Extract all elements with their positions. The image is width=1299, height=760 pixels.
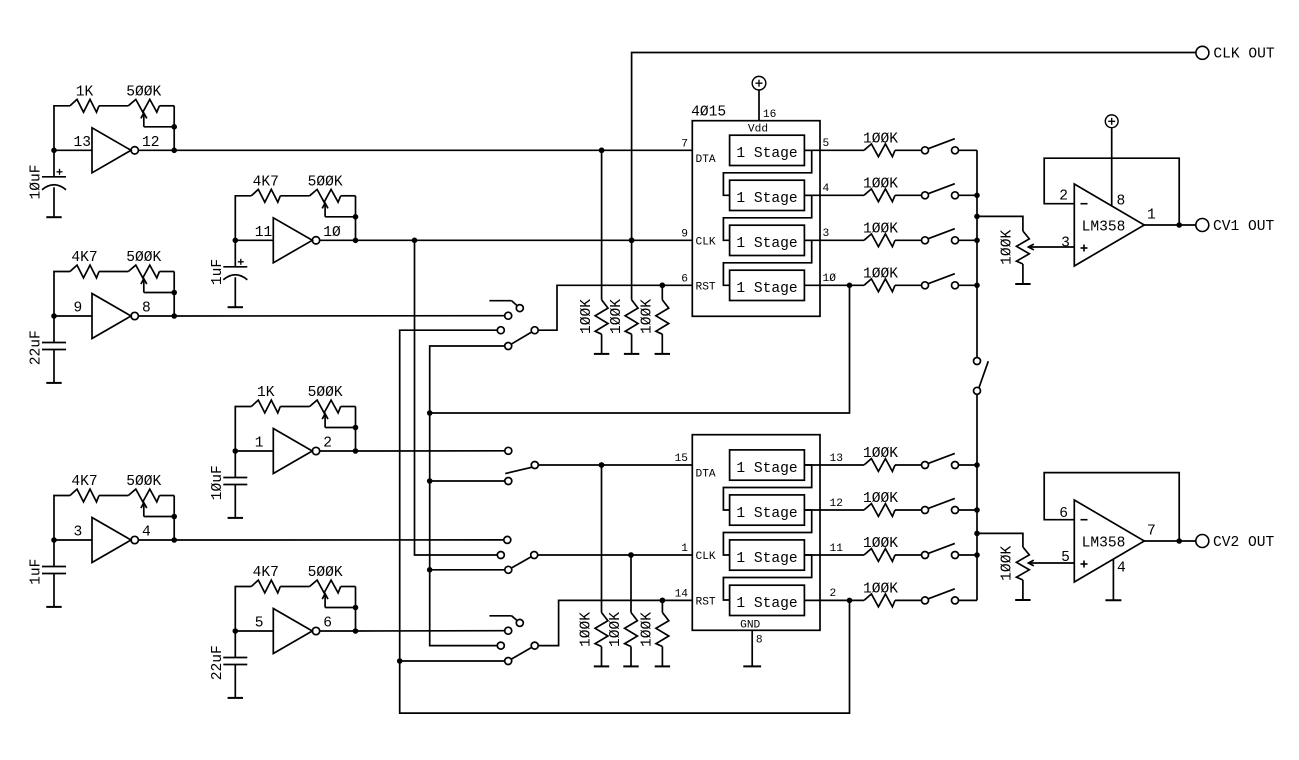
- svg-text:1K: 1K: [76, 84, 94, 100]
- wire CV2 summing bus: [974, 394, 980, 600]
- svg-text:4K7: 4K7: [71, 250, 97, 266]
- terminal CV2 OUT: [1196, 535, 1275, 551]
- svg-text:1ØØK: 1ØØK: [863, 581, 898, 597]
- 4015 B stage 2-3 serpentine wire: [723, 510, 811, 555]
- switch SW4 (stage output 4): [922, 274, 978, 289]
- resistor 100K pulldown DTA bottom: [579, 462, 608, 666]
- U2A pin number 2: [1059, 189, 1068, 205]
- wire CV1 summing bus: [974, 150, 980, 357]
- 4015 B pin label CLK: [696, 551, 716, 563]
- 4015 B pin number 13 and output wire: [804, 453, 864, 465]
- resistor 100K pulldown DTA top: [579, 148, 608, 354]
- ground (pulldown CLK top): [624, 353, 639, 355]
- inverter oscillator IC1B 3-4: feedback wire: [54, 496, 174, 541]
- U2A pin number 3: [1061, 236, 1070, 252]
- U2B pin number 5: [1061, 550, 1070, 566]
- 4015 A stage 3-4 serpentine wire: [723, 240, 811, 285]
- resistor 4K7 (IC1E 11-10 feedback): [251, 174, 280, 202]
- svg-text:1ØuF: 1ØuF: [210, 465, 226, 500]
- 4015 B pin number 14: [675, 589, 689, 601]
- ground (IC1E 11-10 cap): [228, 306, 243, 308]
- svg-text:1: 1: [681, 543, 688, 555]
- resistor 100K pulldown CLK top: [609, 238, 638, 354]
- capacitor 10uF (IC1A 1-2 timing): [210, 451, 247, 518]
- svg-text:8: 8: [756, 635, 763, 647]
- wire net D (4015A stage4 pin 10 feedback): [427, 283, 852, 646]
- 4015 B pin number 1: [681, 543, 688, 555]
- svg-text:16: 16: [763, 109, 776, 121]
- svg-text:1ØØK: 1ØØK: [863, 131, 898, 147]
- terminal CLK OUT: [1196, 46, 1275, 62]
- U2B pin number 6: [1059, 506, 1068, 522]
- svg-text:5: 5: [255, 616, 264, 632]
- resistor 100K (stage output 2): [863, 176, 922, 201]
- svg-text:5ØØK: 5ØØK: [126, 250, 161, 266]
- svg-text:CLK OUT: CLK OUT: [1213, 47, 1275, 63]
- svg-text:9: 9: [681, 229, 688, 241]
- selector switch SW12 (4015B CLK source) input contacts: [497, 536, 512, 573]
- 4015 A pin number 6: [681, 274, 688, 286]
- svg-text:1 Stage: 1 Stage: [736, 191, 797, 207]
- svg-text:RST: RST: [696, 282, 716, 294]
- svg-text:GND: GND: [740, 620, 760, 632]
- ground (IC1A 1-2 cap): [228, 517, 243, 519]
- 4015 A shift stage 4 box: [730, 270, 805, 300]
- svg-text:Vdd: Vdd: [748, 124, 768, 136]
- svg-text:CV2 OUT: CV2 OUT: [1213, 535, 1275, 551]
- 4015 A pin label DTA: [696, 154, 716, 166]
- wire osc3 output to selector input: [174, 315, 505, 317]
- svg-text:22uF: 22uF: [210, 645, 226, 680]
- IC label 4015: [691, 105, 726, 121]
- svg-text:1Ø: 1Ø: [823, 273, 837, 285]
- svg-text:1 Stage: 1 Stage: [736, 281, 797, 297]
- wire osc2 output to 4015 pin9 (CLK): [356, 238, 693, 244]
- svg-text:3: 3: [823, 228, 830, 240]
- selector SW13 input contacts: [497, 627, 511, 664]
- capacitor 22uF (IC1D 9-8 timing): [29, 316, 66, 383]
- resistor 4K7 (IC1D 9-8 feedback): [70, 250, 99, 278]
- 4015 B stage 3-4 serpentine wire: [723, 555, 811, 600]
- svg-text:1ØØK: 1ØØK: [579, 612, 595, 647]
- 4015 B shift stage 3 box: [730, 540, 805, 570]
- 4015 A shift stage 3 box: [730, 225, 805, 255]
- svg-text:1 Stage: 1 Stage: [736, 236, 797, 252]
- svg-text:11: 11: [830, 543, 844, 555]
- resistor 4K7 (IC1C 5-6 feedback): [251, 565, 280, 593]
- svg-text:13: 13: [74, 135, 92, 151]
- svg-text:4: 4: [823, 183, 830, 195]
- 4015 B pin label RST: [696, 597, 716, 609]
- svg-text:1: 1: [255, 436, 264, 452]
- ground (pulldown RST top): [655, 353, 670, 355]
- op-amp U2A body: [1074, 184, 1144, 266]
- wire net C (osc2 clock to SW12): [415, 240, 498, 555]
- 4015 B shift stage 4 box: [730, 585, 805, 615]
- svg-text:11: 11: [255, 225, 273, 241]
- potentiometer 500K (IC1D 9-8): [126, 250, 177, 295]
- svg-text:CV1 OUT: CV1 OUT: [1213, 219, 1275, 235]
- 4015 A label Vdd / pin 16: [748, 109, 776, 136]
- ground (IC1F 13-12 cap): [46, 216, 61, 218]
- potentiometer 500K (IC1F 13-12): [126, 84, 177, 129]
- IC 4015 B outline: [692, 435, 820, 631]
- selector SW11 pole and lever: [505, 462, 538, 474]
- wire osc4 output to DTA selector input: [356, 450, 505, 452]
- svg-text:4: 4: [142, 525, 151, 541]
- inverter oscillator IC1D 9-8: feedback wire: [54, 272, 174, 317]
- svg-text:8: 8: [142, 301, 151, 317]
- svg-text:CLK: CLK: [696, 237, 716, 249]
- 4015 A pin number 3 and output wire: [804, 228, 864, 240]
- svg-text:1 Stage: 1 Stage: [736, 551, 797, 567]
- resistor 100K (stage output 3): [863, 221, 922, 246]
- inverter oscillator IC1A 1-2: feedback wire: [235, 407, 355, 452]
- U2B feedback wire (out to inverting input): [1044, 473, 1182, 544]
- 4015 B shift stage 2 box: [730, 495, 805, 525]
- inverter oscillator IC1E 11-10: feedback wire: [235, 196, 355, 241]
- capacitor 1uF (IC1E 11-10 timing): [210, 240, 247, 307]
- selector switch SW10 (top 4015 RST source) OFF position stub: [489, 301, 523, 312]
- svg-text:4K7: 4K7: [71, 474, 97, 490]
- capacitor 10uF (IC1F 13-12 timing): [29, 150, 66, 217]
- svg-text:5ØØK: 5ØØK: [126, 84, 161, 100]
- switch SW2 (stage output 2): [922, 184, 978, 199]
- ground (IC1B 3-4 cap): [46, 606, 61, 608]
- svg-text:1: 1: [1147, 208, 1156, 224]
- 4015 B pin number 12 and output wire: [804, 498, 864, 510]
- svg-text:5ØØK: 5ØØK: [308, 385, 343, 401]
- 4015 A pin label RST: [696, 282, 716, 294]
- svg-text:1K: 1K: [257, 385, 275, 401]
- inverter gate IC1E 11-10: [233, 218, 359, 263]
- svg-text:5ØØK: 5ØØK: [126, 474, 161, 490]
- svg-text:1Ø: 1Ø: [323, 225, 341, 241]
- 4015 A pin number 5 and output wire: [804, 138, 864, 150]
- potentiometer 500K (IC1E 11-10): [308, 174, 359, 219]
- ground (pulldown DTA top): [594, 353, 609, 355]
- ground (pulldown RST bottom): [655, 665, 670, 667]
- U2A feedback wire (out to inverting input): [1044, 158, 1182, 228]
- U2A pin number 1: [1147, 208, 1156, 224]
- U2B pin number 7: [1147, 524, 1156, 540]
- inverter gate IC1A 1-2: [233, 429, 359, 474]
- 4015 B pin number 2 and output wire: [804, 588, 864, 600]
- 4015 A pin number 10 and output wire: [804, 273, 864, 285]
- U2A pin number 8: [1117, 194, 1126, 210]
- ground (pulldown CLK bottom): [623, 665, 638, 667]
- ground (IC1D 9-8 cap): [46, 382, 61, 384]
- potentiometer 500K (IC1C 5-6): [308, 565, 359, 610]
- resistor 4K7 (IC1B 3-4 feedback): [70, 474, 99, 502]
- terminal CV1 OUT: [1196, 219, 1275, 235]
- svg-text:1 Stage: 1 Stage: [736, 506, 797, 522]
- 4015 B pin number 15: [675, 453, 688, 465]
- svg-text:7: 7: [1147, 524, 1156, 540]
- resistor 100K pulldown CLK bottom: [608, 552, 637, 666]
- svg-text:1ØØK: 1ØØK: [579, 299, 595, 334]
- svg-text:4K7: 4K7: [253, 174, 279, 190]
- resistor 100K (stage output 7): [863, 536, 922, 561]
- selector SW10 pole and lever: [512, 327, 538, 344]
- 4015 A pin number 4 and output wire: [804, 183, 864, 195]
- svg-text:1ØØK: 1ØØK: [640, 299, 656, 334]
- svg-text:1ØØK: 1ØØK: [999, 546, 1015, 581]
- svg-text:5: 5: [823, 138, 830, 150]
- svg-text:DTA: DTA: [696, 469, 716, 481]
- ground (pulldown DTA bottom): [594, 665, 609, 667]
- ground (U2B pin 4): [1105, 559, 1121, 600]
- ground (U2A pot): [1015, 283, 1030, 285]
- capacitor 1uF (IC1B 3-4 timing): [29, 540, 66, 607]
- svg-text:14: 14: [675, 589, 689, 601]
- IC 4015 A outline: [692, 121, 820, 317]
- svg-text:3: 3: [74, 525, 83, 541]
- svg-text:9: 9: [74, 301, 83, 317]
- U2B output wire: [1144, 540, 1196, 542]
- svg-text:12: 12: [830, 498, 843, 510]
- 4015 A pin number 7: [681, 139, 688, 151]
- wire CLK OUT from CLK line: [632, 53, 1196, 241]
- inverter oscillator IC1C 5-6: feedback wire: [235, 587, 355, 632]
- wire SW10 pole to 4015A RST pin 6: [538, 283, 692, 331]
- svg-text:1ØØK: 1ØØK: [863, 491, 898, 507]
- 4015 B stage 1-2 serpentine wire: [723, 465, 811, 510]
- power Vdd symbol (4015 A pin 16): [752, 76, 766, 120]
- op-amp U2B body: [1074, 500, 1144, 582]
- switch SW8 (stage output 8): [922, 589, 978, 604]
- 4015 A pin label CLK: [696, 237, 716, 249]
- svg-text:4Ø15: 4Ø15: [691, 105, 726, 121]
- 4015 A pin number 9: [681, 229, 688, 241]
- svg-text:1ØØK: 1ØØK: [863, 446, 898, 462]
- U2B pin number 4: [1117, 560, 1126, 576]
- wire osc5 output to CLK selector input: [174, 539, 503, 541]
- inverter gate IC1D 9-8: [51, 294, 177, 339]
- svg-text:6: 6: [323, 616, 332, 632]
- wire osc1 output to 4015 pin7 (DTA): [174, 148, 692, 154]
- potentiometer 500K (IC1A 1-2): [308, 385, 359, 430]
- svg-text:1uF: 1uF: [210, 259, 226, 285]
- wire SW13 pole to 4015B RST pin 14: [538, 598, 692, 646]
- svg-text:13: 13: [830, 453, 843, 465]
- ground (IC1C 5-6 cap): [228, 697, 243, 699]
- inverter gate IC1B 3-4: [51, 518, 177, 563]
- 4015 B pin label DTA: [696, 469, 716, 481]
- 4015 B GND pin 8 wire: [751, 630, 753, 666]
- svg-text:4K7: 4K7: [253, 565, 279, 581]
- wire SW12 pole to 4015B CLK pin 1: [538, 552, 693, 558]
- svg-text:1ØØK: 1ØØK: [863, 266, 898, 282]
- svg-text:3: 3: [1061, 236, 1070, 252]
- svg-text:1ØuF: 1ØuF: [29, 164, 45, 199]
- potentiometer 100K (U2B input attenuator): [977, 533, 1074, 600]
- svg-text:15: 15: [675, 453, 688, 465]
- selector switch SW13 (4015B RST source) OFF position stub: [489, 616, 523, 627]
- switch SW5 (stage output 5): [922, 453, 978, 468]
- selector switch SW11 (4015B DTA source) input contacts: [505, 447, 512, 484]
- svg-text:6: 6: [681, 274, 688, 286]
- svg-text:1ØØK: 1ØØK: [863, 536, 898, 552]
- svg-text:LM358: LM358: [1082, 536, 1126, 552]
- svg-text:DTA: DTA: [696, 154, 716, 166]
- power V+ symbol (U2A pin 8): [1105, 115, 1118, 206]
- potentiometer 100K (U2A input attenuator): [977, 216, 1074, 284]
- switch SW1 (stage output 1): [922, 139, 978, 154]
- switch SW6 (stage output 6): [922, 498, 978, 513]
- resistor 100K (stage output 4): [863, 266, 922, 291]
- svg-text:6: 6: [1059, 506, 1068, 522]
- ground (U2B pot): [1015, 599, 1030, 601]
- 4015 A stage 2-3 serpentine wire: [723, 195, 811, 240]
- 4015 B shift stage 1 box: [730, 450, 805, 480]
- switch bus link SW9: [974, 358, 989, 395]
- resistor 100K pulldown RST top: [640, 283, 669, 354]
- svg-text:1ØØK: 1ØØK: [640, 612, 656, 647]
- svg-text:22uF: 22uF: [29, 330, 45, 365]
- inverter gate IC1F 13-12: [51, 128, 177, 173]
- svg-text:2: 2: [830, 588, 837, 600]
- svg-text:5ØØK: 5ØØK: [308, 565, 343, 581]
- 4015 A shift stage 1 box: [730, 135, 805, 165]
- svg-text:CLK: CLK: [696, 551, 716, 563]
- svg-text:2: 2: [1059, 189, 1068, 205]
- capacitor 22uF (IC1C 5-6 timing): [210, 631, 247, 698]
- potentiometer 500K (IC1B 3-4): [126, 474, 177, 519]
- svg-text:1ØØK: 1ØØK: [609, 299, 625, 334]
- selector SW13 pole and lever: [512, 642, 538, 659]
- ground (4015 B pin 8): [743, 665, 761, 667]
- 4015 A stage 1-2 serpentine wire: [723, 150, 811, 195]
- svg-text:8: 8: [1117, 194, 1126, 210]
- 4015 A shift stage 2 box: [730, 180, 805, 210]
- selector SW12 pole and lever: [512, 552, 538, 568]
- wire SW11 pole to 4015B DTA pin 15: [538, 462, 692, 468]
- svg-text:1 Stage: 1 Stage: [736, 461, 797, 477]
- svg-text:1 Stage: 1 Stage: [736, 146, 797, 162]
- wire net B (4015B stage4 pin 2 feedback): [397, 330, 852, 713]
- svg-text:2: 2: [323, 436, 332, 452]
- resistor 1K (IC1A 1-2 feedback): [251, 385, 280, 413]
- svg-text:4: 4: [1117, 560, 1126, 576]
- svg-text:1uF: 1uF: [29, 559, 45, 585]
- svg-text:1ØØK: 1ØØK: [863, 221, 898, 237]
- svg-text:5: 5: [1061, 550, 1070, 566]
- svg-text:12: 12: [142, 135, 160, 151]
- resistor 100K pulldown RST bottom: [640, 598, 669, 667]
- resistor 100K (stage output 8): [863, 581, 922, 606]
- svg-text:7: 7: [681, 139, 688, 151]
- wire osc6 output to RST selector input: [355, 630, 504, 632]
- svg-text:LM358: LM358: [1082, 220, 1126, 236]
- U2A output wire: [1144, 224, 1196, 226]
- svg-text:5ØØK: 5ØØK: [308, 174, 343, 190]
- switch SW7 (stage output 7): [922, 543, 978, 558]
- 4015 B pin number 11 and output wire: [804, 543, 864, 555]
- svg-text:1 Stage: 1 Stage: [736, 596, 797, 612]
- resistor 100K (stage output 5): [863, 446, 922, 471]
- selector SW10 input contacts: [497, 312, 511, 349]
- svg-text:1ØØK: 1ØØK: [863, 176, 898, 192]
- svg-text:RST: RST: [696, 597, 716, 609]
- switch SW3 (stage output 3): [922, 229, 978, 244]
- resistor 1K (IC1F 13-12 feedback): [70, 84, 99, 112]
- 4015 B label GND / pin 8: [740, 620, 762, 647]
- inverter oscillator IC1F 13-12: feedback wire: [54, 106, 174, 151]
- resistor 100K (stage output 1): [863, 131, 922, 156]
- inverter gate IC1C 5-6: [233, 609, 359, 654]
- svg-text:1ØØK: 1ØØK: [608, 612, 624, 647]
- resistor 100K (stage output 6): [863, 491, 922, 516]
- svg-text:1ØØK: 1ØØK: [999, 230, 1015, 265]
